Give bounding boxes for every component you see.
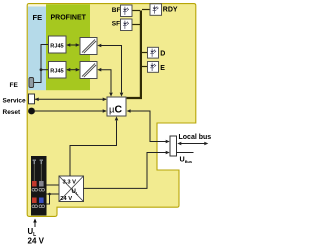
PROFINET zone (green) [46, 4, 90, 90]
wire T2 to µC (top) [101, 70, 111, 93]
svg-text:FE: FE [33, 13, 43, 22]
LED BF stub wire [132, 10, 140, 12]
svg-text:Service: Service [3, 98, 27, 105]
microcontroller µC [107, 97, 126, 116]
LED E [148, 62, 159, 73]
double arrow Local bus [179, 143, 208, 145]
svg-text:SF: SF [112, 21, 120, 28]
wire branch to RJ45 X2 [41, 69, 49, 71]
svg-text:BF: BF [112, 7, 121, 14]
connector RJ45 X1 [49, 36, 67, 53]
wire 24V terminal to DC/DC (upper) [47, 184, 60, 186]
LED RDY [150, 4, 162, 16]
connector RJ45 X2 [49, 62, 67, 79]
transformer T2 (isolation) [80, 62, 97, 79]
svg-text:UL: UL [72, 189, 79, 195]
junction on FE wire [40, 68, 43, 71]
wire T1 to µC (top) [101, 46, 122, 93]
DC/DC converter 24V to 3.3V [59, 176, 84, 202]
svg-text:Local bus: Local bus [179, 134, 212, 141]
FE shield zone (blue strip) [28, 7, 46, 91]
transformer T1 (isolation) [80, 38, 97, 55]
Service switch [29, 94, 35, 104]
bidirectional arrow RJ45 X2 to transformer T2 [67, 69, 79, 71]
LED BF [121, 5, 133, 17]
svg-text:E: E [160, 65, 165, 72]
svg-text:UBus: UBus [180, 155, 193, 165]
svg-text:RJ45: RJ45 [50, 69, 63, 75]
FE contact pad [29, 78, 34, 88]
svg-text:24 V: 24 V [60, 196, 72, 202]
wire FE contact to RJ45 ports [34, 45, 49, 83]
supply arrow (into module bottom) [34, 221, 36, 227]
wire 0V terminal to DC/DC (lower) [47, 193, 60, 195]
wire Service switch to µC [35, 98, 106, 100]
LED SF stub wire [132, 24, 140, 26]
local bus interface [170, 136, 177, 156]
svg-text:D: D [160, 51, 165, 58]
LED D stub wire [142, 52, 148, 54]
LED D [148, 47, 159, 58]
wire U_Bus output [177, 152, 194, 154]
svg-text:RDY: RDY [163, 7, 178, 14]
wire 3.3V to µC (bottom) [70, 121, 117, 177]
module body (yellow, stepped outline with local-bus cutout) [27, 4, 196, 217]
LED E stub wire [142, 66, 148, 68]
wire 0V return loop [47, 194, 50, 204]
svg-text:FE: FE [10, 82, 19, 89]
wire Reset button to µC [35, 110, 107, 112]
svg-text:Reset: Reset [3, 109, 22, 116]
LED RDY stub wire [142, 9, 150, 11]
svg-text:24 V: 24 V [28, 236, 45, 245]
bidirectional arrow RJ45 X1 to transformer T1 [67, 44, 79, 46]
svg-text:RJ45: RJ45 [50, 44, 63, 50]
svg-text:3.3 V: 3.3 V [63, 180, 77, 186]
FE shield zone highlight [28, 4, 46, 6]
wire µC to local bus interface (data) [130, 111, 166, 142]
svg-text:PROFINET: PROFINET [51, 15, 87, 22]
wire UL to local bus interface [84, 153, 167, 189]
Reset button [28, 108, 35, 115]
junction on 0V wire [48, 193, 51, 196]
svg-text:µC: µC [109, 104, 122, 116]
LED bus (thick wire from µC to LEDs) [127, 11, 141, 99]
LED SF [121, 19, 133, 31]
power terminal block (protection, dark) [31, 156, 47, 216]
